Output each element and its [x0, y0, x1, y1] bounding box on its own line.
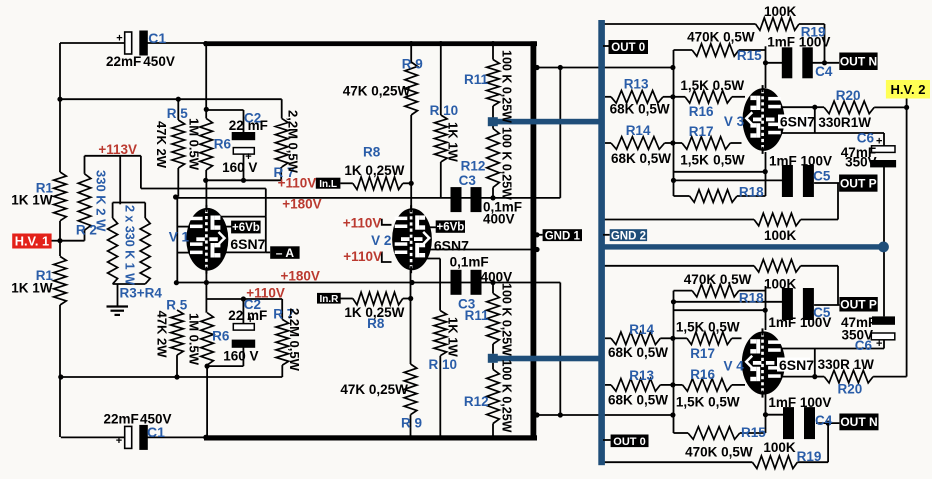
- svg-text:R 5: R 5: [167, 106, 189, 121]
- svg-text:100K: 100K: [764, 228, 797, 243]
- svg-text:+: +: [876, 338, 882, 350]
- svg-text:R 10: R 10: [430, 103, 459, 118]
- svg-text:+180V: +180V: [282, 197, 321, 212]
- svg-text:OUT 0: OUT 0: [613, 436, 645, 448]
- svg-text:R14: R14: [626, 123, 651, 138]
- svg-text:+: +: [876, 136, 882, 148]
- svg-text:+180V: +180V: [281, 268, 320, 283]
- svg-text:H.V. 1: H.V. 1: [15, 234, 49, 249]
- svg-text:2,2M 0,5W: 2,2M 0,5W: [286, 110, 301, 174]
- svg-text:OUT P: OUT P: [840, 298, 877, 312]
- svg-text:R6: R6: [214, 136, 232, 151]
- svg-text:1M 0.5W: 1M 0.5W: [187, 118, 202, 171]
- svg-text:+: +: [116, 33, 122, 45]
- svg-text:R16: R16: [690, 367, 715, 382]
- svg-text:160 V: 160 V: [223, 349, 258, 364]
- svg-text:400V: 400V: [483, 211, 515, 226]
- svg-text:22 mF: 22 mF: [229, 118, 268, 133]
- svg-text:C1: C1: [148, 30, 166, 46]
- svg-text:2,2M 0,5W: 2,2M 0,5W: [287, 308, 302, 372]
- svg-text:R20: R20: [838, 382, 863, 397]
- svg-text:1W: 1W: [851, 115, 872, 130]
- svg-text:+110V: +110V: [343, 249, 382, 264]
- svg-text:1K 1W: 1K 1W: [11, 192, 53, 207]
- svg-text:22 mF: 22 mF: [228, 308, 267, 323]
- svg-text:H.V. 2: H.V. 2: [891, 82, 926, 97]
- svg-text:6SN7: 6SN7: [779, 357, 814, 373]
- svg-text:6SN7: 6SN7: [230, 236, 265, 252]
- svg-text:68K 0,5W: 68K 0,5W: [608, 393, 668, 408]
- svg-text:330R 1W: 330R 1W: [818, 357, 875, 372]
- svg-text:68K 0,5W: 68K 0,5W: [611, 151, 671, 166]
- svg-text:350V: 350V: [845, 154, 877, 169]
- svg-text:330 K 2 W: 330 K 2 W: [94, 170, 109, 232]
- svg-text:V 3: V 3: [724, 114, 745, 129]
- svg-text:OUT N: OUT N: [840, 415, 877, 429]
- svg-text:1mF 100V: 1mF 100V: [768, 315, 831, 330]
- svg-text:+113V: +113V: [98, 142, 137, 157]
- svg-text:R3+R4: R3+R4: [120, 286, 163, 301]
- svg-text:100K: 100K: [764, 276, 797, 291]
- svg-text:R18: R18: [739, 291, 764, 306]
- svg-text:GND 2: GND 2: [611, 230, 646, 242]
- svg-text:450V: 450V: [143, 54, 175, 69]
- svg-text:100 K 0,25W: 100 K 0,25W: [500, 127, 514, 200]
- svg-text:350V: 350V: [842, 328, 874, 343]
- svg-text:– A: – A: [276, 246, 295, 260]
- svg-text:6SN7: 6SN7: [434, 238, 469, 254]
- svg-text:R15: R15: [741, 425, 766, 440]
- svg-text:470K 0,5W: 470K 0,5W: [687, 30, 755, 45]
- svg-text:V 4: V 4: [724, 358, 745, 373]
- svg-text:+: +: [116, 435, 122, 447]
- svg-text:R17: R17: [689, 124, 714, 139]
- svg-text:In.L: In.L: [319, 179, 337, 190]
- svg-text:+110V: +110V: [246, 286, 285, 301]
- svg-text:R 10: R 10: [429, 357, 458, 372]
- svg-text:47K 0,25W: 47K 0,25W: [343, 84, 411, 99]
- svg-text:In.R: In.R: [319, 294, 339, 305]
- svg-text:1mF 100V: 1mF 100V: [768, 395, 831, 410]
- svg-text:1M 0.5W: 1M 0.5W: [187, 313, 202, 366]
- svg-text:OUT P: OUT P: [840, 176, 877, 190]
- svg-text:470K 0,5W: 470K 0,5W: [684, 272, 752, 287]
- svg-text:1mF 100V: 1mF 100V: [769, 153, 832, 168]
- svg-text:2 x 330 K 1 W: 2 x 330 K 1 W: [123, 205, 137, 285]
- svg-text:450V: 450V: [140, 411, 172, 426]
- svg-text:470K 0,5W: 470K 0,5W: [685, 445, 753, 460]
- svg-text:V 1: V 1: [169, 230, 190, 245]
- svg-text:C6: C6: [857, 130, 875, 145]
- svg-text:1K 0,25W: 1K 0,25W: [344, 305, 404, 320]
- svg-text:R13: R13: [624, 76, 649, 91]
- svg-text:22mF: 22mF: [106, 54, 141, 69]
- svg-text:1K 1W: 1K 1W: [11, 281, 53, 296]
- svg-text:68K 0,5W: 68K 0,5W: [610, 102, 670, 117]
- svg-text:68K 0,5W: 68K 0,5W: [608, 345, 668, 360]
- svg-text:400V: 400V: [481, 270, 513, 285]
- svg-text:100K: 100K: [764, 4, 797, 19]
- svg-text:C5: C5: [813, 169, 831, 184]
- svg-text:V 2: V 2: [371, 233, 391, 248]
- svg-text:1K 1W: 1K 1W: [446, 317, 461, 357]
- svg-text:OUT N: OUT N: [840, 55, 877, 69]
- svg-text:R13: R13: [629, 368, 654, 383]
- svg-text:1mF 100V: 1mF 100V: [767, 35, 830, 50]
- svg-text:1,5K: 1,5K: [680, 153, 709, 168]
- svg-text:1,5K 0,5W: 1,5K 0,5W: [676, 319, 740, 334]
- svg-text:R17: R17: [690, 346, 715, 361]
- svg-text:47K 2W: 47K 2W: [155, 311, 170, 359]
- svg-text:+6Vb: +6Vb: [232, 222, 260, 234]
- svg-text:R12: R12: [461, 158, 486, 173]
- svg-text:1K 1W: 1K 1W: [446, 122, 461, 162]
- svg-text:47K 2W: 47K 2W: [154, 121, 169, 169]
- svg-text:100 K 0,25W: 100 K 0,25W: [500, 283, 514, 356]
- svg-text:1K 0,25W: 1K 0,25W: [344, 163, 404, 178]
- svg-text:C3: C3: [458, 296, 476, 311]
- svg-text:100K: 100K: [763, 440, 796, 455]
- svg-text:22mF: 22mF: [104, 411, 139, 426]
- svg-text:GND 1: GND 1: [545, 230, 581, 242]
- svg-text:100 K 0,25W: 100 K 0,25W: [500, 360, 514, 433]
- svg-text:R 9: R 9: [402, 56, 423, 71]
- svg-text:R 9: R 9: [401, 416, 422, 431]
- svg-text:0,1mF: 0,1mF: [450, 255, 489, 270]
- svg-text:R8: R8: [363, 145, 381, 160]
- svg-text:+110V: +110V: [278, 175, 317, 190]
- svg-text:R14: R14: [629, 322, 654, 337]
- svg-text:R6: R6: [212, 329, 230, 344]
- svg-text:+110V: +110V: [343, 216, 382, 231]
- svg-text:47K 0,25W: 47K 0,25W: [340, 382, 408, 397]
- svg-text:1,5K 0,5W: 1,5K 0,5W: [680, 78, 744, 93]
- svg-text:R19: R19: [797, 449, 822, 464]
- svg-text:160 V: 160 V: [222, 160, 257, 175]
- svg-text:R12: R12: [464, 394, 489, 409]
- svg-text:C4: C4: [815, 413, 833, 428]
- svg-text:1,5K 0,5W: 1,5K 0,5W: [676, 394, 740, 409]
- svg-text:R18: R18: [739, 185, 764, 200]
- svg-text:0,5W: 0,5W: [713, 153, 745, 168]
- svg-text:330R: 330R: [818, 115, 851, 130]
- svg-text:+6Vb: +6Vb: [436, 222, 464, 234]
- svg-text:R16: R16: [689, 104, 714, 119]
- svg-text:R15: R15: [737, 48, 762, 63]
- svg-text:6SN7: 6SN7: [780, 114, 815, 130]
- svg-text:R20: R20: [836, 88, 861, 103]
- svg-text:C4: C4: [815, 64, 833, 79]
- svg-text:R11: R11: [464, 72, 489, 87]
- svg-text:100 K 0,25W: 100 K 0,25W: [500, 50, 514, 123]
- svg-text:OUT 0: OUT 0: [611, 42, 645, 54]
- svg-text:C3: C3: [459, 173, 477, 188]
